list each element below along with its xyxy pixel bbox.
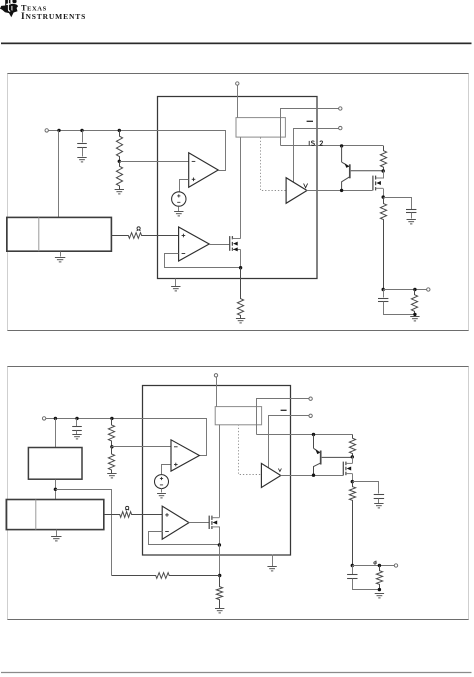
node M3 source/feedback: [218, 543, 221, 546]
wire IC2 ground pin: [272, 555, 274, 567]
wire to C1: [82, 131, 84, 143]
ground below R9: [107, 474, 116, 478]
wire pin to terminal 1 fig2: [257, 399, 309, 435]
node M2 source: [382, 195, 385, 198]
ground below R14: [215, 609, 224, 613]
terminal VIN (top) fig2: [214, 374, 217, 377]
terminal output (right) fig2: [394, 564, 397, 567]
wire input rail to op-amp U2A output: [46, 419, 207, 456]
MOSFET M3 (internal): [209, 516, 212, 529]
ground below R3: [236, 319, 245, 323]
capacitor C5: [374, 495, 384, 499]
resistor R9: [108, 447, 114, 473]
node R11/Q2 base/M4 drain: [351, 455, 354, 458]
terminal input (left): [45, 129, 48, 132]
node IS/Q2 emitter: [312, 433, 315, 436]
buffer A1 (V): [286, 178, 307, 204]
op-amp U1B: [179, 227, 210, 261]
wire divider tap to op-amp U1A inverting input: [120, 161, 189, 163]
resistor R15 (feedback): [112, 573, 220, 579]
wire rail down to block A: [55, 419, 57, 448]
resistor R8: [108, 418, 114, 446]
label V fig2: [278, 469, 281, 472]
wire C3 bottom to ground node: [384, 302, 415, 315]
label pin dash: [307, 120, 313, 122]
svg-text:INSTRUMENTS: INSTRUMENTS: [21, 12, 86, 22]
node IS/Q1 emitter: [340, 144, 343, 147]
label V: [304, 184, 308, 188]
figure 2 frame: [7, 367, 469, 620]
ground below current source: [174, 212, 183, 216]
wire IS pin: [281, 145, 384, 147]
wire internal block to M1 drain: [240, 138, 242, 239]
terminal pin (top right 2) fig2: [309, 414, 312, 417]
wire source node to C5: [353, 482, 379, 494]
node ground join fig2: [378, 588, 381, 591]
node R13 top: [378, 564, 381, 567]
wire input rail to op-amp U1A output: [49, 131, 226, 171]
node M1 source/feedback: [239, 266, 242, 269]
wire to output terminal: [384, 289, 427, 291]
wire current source 2 to ground: [161, 489, 163, 493]
ground IC U2: [267, 567, 276, 571]
source block BAT1: [7, 217, 112, 251]
label IS: [309, 141, 314, 146]
wire internal block to M3 drain: [219, 425, 221, 518]
node gate drive/Q2 collector: [312, 474, 315, 477]
op-amp U2A: [171, 440, 199, 471]
IC U2 outline: [143, 386, 291, 556]
wire M3 source to bottom node: [219, 545, 221, 576]
wire pin to terminal 2 fig2: [269, 416, 309, 468]
wire C2 to ground: [411, 213, 413, 219]
control line (dotted) to buffer: [261, 138, 286, 191]
node divider tap fig2: [110, 445, 113, 448]
node output lower: [382, 288, 385, 291]
capacitor C2: [406, 210, 416, 213]
node output lower fig2: [351, 564, 354, 567]
wire pin to terminal 2: [294, 129, 339, 183]
wire buffer V output to gate drive: [307, 190, 373, 192]
ground below R2: [115, 190, 124, 194]
wire divider tap to U2A inverting input: [112, 446, 171, 448]
wire M2 source down: [383, 189, 385, 198]
node bottom feedback: [218, 574, 221, 577]
resistor R4: [380, 146, 386, 171]
wire feedback tap down to R15: [56, 490, 112, 576]
ground below R13: [375, 594, 384, 598]
node rail/R8: [110, 417, 113, 420]
header rule: [1, 43, 472, 45]
MOSFET M2 (external pass): [373, 176, 376, 191]
ground below C5: [374, 504, 383, 508]
ground below block B: [51, 537, 61, 541]
ground below C4: [72, 435, 81, 439]
node rail/R1: [118, 129, 121, 132]
op-amp U1A: [189, 153, 219, 188]
capacitor C1: [77, 144, 87, 148]
ground below source block: [55, 258, 65, 262]
ground IC U1: [171, 287, 180, 291]
label ohm fig2: [125, 506, 129, 510]
op-amp U2B: [162, 506, 189, 539]
terminal pin (top right 2): [339, 126, 342, 129]
wire current source to ground: [178, 207, 180, 212]
node divider tap: [118, 160, 121, 163]
resistor R5: [380, 197, 386, 289]
terminal VIN (top): [236, 82, 239, 85]
block B (source, lower left): [6, 500, 104, 530]
node feedback tap: [54, 488, 57, 491]
wire M1 source down: [240, 250, 242, 268]
resistor R3 (below IC): [237, 268, 243, 319]
wire U2B output to M3 gate: [189, 522, 210, 524]
capacitor C3: [378, 299, 388, 302]
wire block to ground: [60, 252, 62, 257]
wire buffer V output to gate drive fig2: [281, 475, 344, 477]
transistor Q2 (PNP): [314, 435, 353, 476]
ground below C1: [77, 158, 86, 162]
resistor R2: [116, 161, 122, 189]
wire block B to ground: [56, 530, 58, 537]
resistor R11: [349, 435, 355, 457]
wire U1B output to M1 gate: [210, 244, 230, 246]
wire IS pin fig2: [257, 434, 353, 436]
resistor R6: [411, 290, 417, 315]
IC U1 outline: [158, 97, 318, 279]
terminal input (left) fig2: [42, 417, 45, 420]
resistor R13: [376, 566, 382, 590]
wire U1B feedback from source node: [165, 254, 240, 268]
node rail/C4: [75, 417, 78, 420]
wire U2A non-inverting input to current source: [162, 465, 171, 475]
capacitor C4: [72, 427, 82, 431]
node rail/block A: [54, 417, 57, 420]
wire IC ground pin: [175, 279, 177, 287]
figure 1 frame: [7, 74, 469, 331]
resistor R14: [216, 576, 222, 609]
wire pin to terminal 1: [281, 109, 339, 146]
terminal pin (top right 1) fig2: [309, 397, 312, 400]
wire M3 source down: [219, 527, 221, 545]
current source I2: [155, 475, 169, 489]
resistor R12: [349, 482, 355, 566]
wire U1A non-inverting input to current source: [180, 180, 189, 192]
block A (upper left): [28, 448, 82, 480]
wire rail down to source block: [58, 131, 60, 218]
wire to output terminal fig2: [353, 565, 395, 567]
wire top terminal to internal block fig2: [216, 377, 218, 407]
node R6 top: [413, 288, 416, 291]
TI logo (Texas state mark): [0, 0, 18, 17]
label ohm: [137, 227, 141, 231]
ground below R6: [410, 317, 419, 321]
resistor RS (sense): [111, 233, 178, 239]
resistor R1: [116, 130, 122, 161]
wire C6 bottom to ground node fig2: [353, 579, 380, 590]
terminal pin (top right 1): [339, 107, 342, 110]
terminal output (right): [427, 288, 430, 291]
bottom rule: [1, 672, 472, 674]
wire C4 to ground: [76, 431, 78, 435]
wire top terminal to internal block: [237, 86, 239, 118]
capacitor C6: [347, 575, 357, 579]
node gate drive/Q1 collector: [340, 189, 343, 192]
wire R4 node to M2 drain: [383, 171, 385, 179]
buffer A2 (V): [261, 463, 280, 487]
node R4/Q1 base/M2 drain: [382, 169, 385, 172]
wire C5 to ground: [378, 499, 380, 504]
control line (dotted) to buffer 2: [239, 425, 261, 475]
wire M4 source down: [352, 474, 354, 482]
resistor RS2 (sense): [104, 512, 162, 518]
wire R11 node to M4 drain: [352, 457, 354, 464]
wire C1 to ground: [82, 148, 84, 157]
label pin dash fig2: [281, 409, 287, 411]
MOSFET M4 (external pass): [343, 462, 346, 476]
wire U2B feedback from source node: [149, 532, 219, 545]
node M4 source: [351, 480, 354, 483]
wire source node to C2: [384, 198, 412, 210]
transistor Q1 (PNP): [342, 146, 384, 191]
wire to C4: [76, 419, 78, 427]
node rail/source block: [57, 129, 60, 132]
node rail/C1: [80, 129, 83, 132]
internal block (charge pump) 2: [215, 407, 261, 425]
internal block (charge pump): [236, 118, 285, 138]
wire node to C6: [352, 566, 354, 575]
label 2 (pin number): [320, 141, 323, 145]
wire block A to block B: [55, 480, 57, 500]
current source I1: [172, 192, 186, 206]
ground below current source 2: [157, 494, 166, 498]
node ground join: [413, 313, 416, 316]
wire node to C3: [383, 290, 385, 298]
label d: [374, 561, 376, 564]
ground below C2: [407, 220, 416, 224]
MOSFET M1 (internal): [230, 236, 233, 251]
